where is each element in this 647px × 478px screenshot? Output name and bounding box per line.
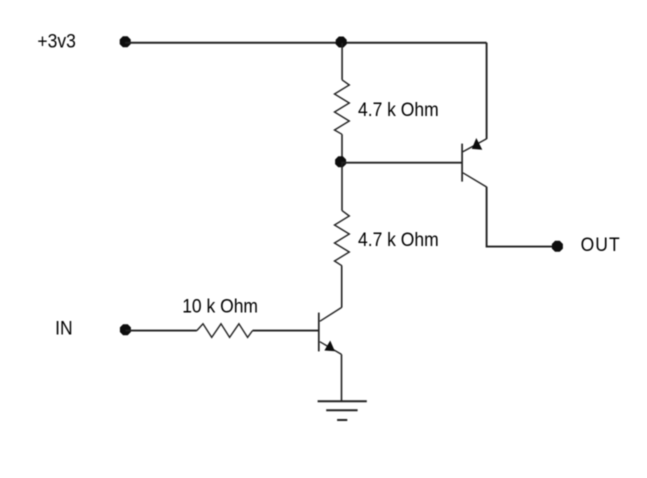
junction node B dot [335, 156, 346, 167]
node +3v3 terminal dot [120, 36, 131, 47]
svg-text:+3v3: +3v3 [37, 29, 75, 51]
wire rail to R1 top [341, 43, 343, 80]
transistor Q2 base bar [461, 144, 463, 182]
transistor Q2 collector lead [463, 173, 487, 187]
ground symbol bar 1 [318, 400, 367, 402]
junction node A on +3v3 rail [336, 37, 347, 48]
wire R1 bottom to junction node B [341, 134, 343, 162]
wire Q2 collector down and right to OUT [487, 187, 558, 247]
wire node B down to R2 top [341, 162, 343, 211]
transistor Q1 emitter lead [320, 342, 342, 355]
transistor Q2 emitter lead [463, 139, 487, 152]
wire R3 to Q1 base [253, 330, 319, 332]
wire R2 bottom to Q1 collector [341, 266, 343, 308]
wire Q1 emitter down to ground [341, 354, 343, 401]
svg-text:10 k Ohm: 10 k Ohm [182, 294, 258, 316]
node IN terminal dot [120, 324, 131, 335]
resistor R2 4.7 k Ohm (vertical) [335, 211, 350, 266]
resistor R3 10 k Ohm (horizontal) [197, 324, 253, 338]
wire +3v3 rail corner down to Q2 emitter [486, 43, 488, 139]
svg-text:IN: IN [55, 317, 72, 339]
transistor Q2 emitter arrow [472, 138, 483, 150]
transistor Q1 base bar [318, 313, 320, 352]
ground symbol bar 3 [337, 419, 347, 421]
svg-text:OUT: OUT [581, 233, 621, 255]
svg-text:4.7 k Ohm: 4.7 k Ohm [358, 98, 439, 120]
wire IN to R3 [125, 330, 196, 332]
transistor Q1 collector lead [320, 307, 342, 321]
node OUT dot [552, 241, 563, 252]
svg-text:4.7 k Ohm: 4.7 k Ohm [358, 228, 439, 250]
ground symbol bar 2 [326, 409, 357, 411]
resistor R1 4.7 k Ohm (vertical) [335, 80, 350, 135]
wire node B to Q2 base [341, 162, 462, 164]
transistor Q1 emitter arrow [324, 341, 335, 352]
wire +3v3 rail [125, 42, 487, 44]
